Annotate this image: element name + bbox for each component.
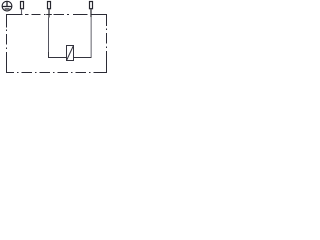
terminal pin X1 bbox=[21, 2, 24, 15]
enclosure boundary left edge bbox=[6, 14, 8, 73]
enclosure boundary top edge bbox=[6, 14, 107, 16]
terminal pin X3 bbox=[90, 2, 93, 18]
enclosure boundary bottom edge bbox=[6, 72, 107, 74]
wire from pin X2 down bbox=[48, 18, 50, 54]
load element E1 bbox=[67, 46, 74, 61]
wire from pin X3 down bbox=[90, 17, 92, 57]
wire corner to load left bbox=[49, 52, 67, 58]
enclosure boundary right edge bbox=[106, 14, 108, 73]
protective earth symbol PE bbox=[2, 1, 12, 11]
wire to load right bbox=[74, 57, 92, 59]
terminal pin X2 bbox=[46, 2, 52, 18]
